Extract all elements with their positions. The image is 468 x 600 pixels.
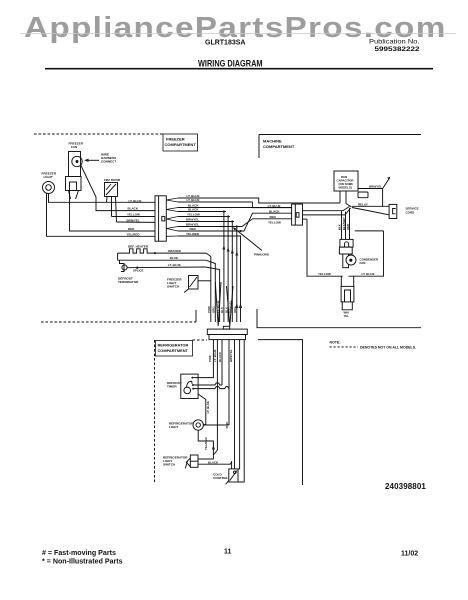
freezer fan motor circle	[72, 156, 82, 166]
wire row 211.5 drop	[178, 211, 226, 213]
svg-text:COMPARTMENT: COMPARTMENT	[165, 142, 197, 147]
freezer light bulb	[43, 182, 55, 194]
svg-text:CONTROL: CONTROL	[213, 476, 228, 480]
splice	[136, 267, 138, 269]
drop junctions	[223, 210, 242, 232]
svg-text:LIGHT: LIGHT	[44, 175, 53, 179]
below connector wires	[192, 340, 213, 378]
wire fan diagonal to BLACK row	[81, 165, 156, 211]
svg-text:LIGHT: LIGHT	[169, 425, 178, 429]
capacitor appendix	[358, 192, 368, 198]
svg-text:YELLOW: YELLOW	[268, 221, 281, 225]
refrigerator compartment label box	[156, 341, 193, 357]
svg-text:PINK: PINK	[225, 421, 229, 429]
refrigerator light label	[169, 422, 194, 430]
defrost terminator label	[118, 277, 139, 285]
freezer light switch label	[167, 278, 182, 289]
timer bottom wire to light	[198, 394, 206, 425]
connector right fanout pairs	[166, 198, 178, 236]
loop labels	[318, 272, 374, 276]
svg-text:BLACK: BLACK	[269, 209, 280, 213]
svg-text:LT. BLUE: LT. BLUE	[129, 199, 142, 203]
timer row B	[193, 383, 222, 385]
refrigerator compartment border left dashed	[154, 340, 156, 484]
light to pink vertical	[203, 424, 229, 426]
svg-text:CONNECT: CONNECT	[101, 160, 116, 164]
svg-text:MACHINE: MACHINE	[263, 139, 282, 144]
svg-text:ORANGE: ORANGE	[168, 249, 181, 253]
switch to cold control wire	[198, 461, 232, 464]
svg-text:# = Fast-moving Parts: # = Fast-moving Parts	[42, 549, 116, 557]
cold control symbol	[229, 469, 238, 482]
bundle rotated labels	[207, 300, 237, 313]
svg-text:PINK: PINK	[208, 354, 212, 362]
svg-text:RED: RED	[128, 227, 135, 231]
relay to service cord wire	[352, 205, 383, 207]
svg-text:FAN: FAN	[71, 145, 78, 149]
heater rows bend down	[206, 253, 211, 322]
refrigerator light switch label	[163, 456, 188, 467]
note text	[330, 341, 417, 350]
refrigerator compartment label	[158, 343, 189, 354]
left wire labels	[127, 199, 142, 237]
svg-text:SPLICE: SPLICE	[133, 268, 144, 272]
ground plug	[341, 286, 354, 302]
svg-text:BLACK: BLACK	[218, 351, 222, 362]
note dashed sample	[330, 346, 359, 348]
faint page top line	[20, 33, 456, 35]
svg-text:PINK: PINK	[207, 305, 211, 313]
svg-text:RED: RED	[270, 215, 277, 219]
svg-text:11/02: 11/02	[401, 551, 418, 558]
svg-text:BLACK: BLACK	[128, 207, 139, 211]
freezer compartment border top	[34, 133, 163, 135]
svg-text:11: 11	[224, 549, 232, 556]
wire row lt blue to machine connector	[178, 202, 292, 208]
svg-text:ORG: ORG	[233, 306, 237, 313]
wire row red diag	[178, 213, 292, 231]
freezer compartment border bottom	[41, 321, 196, 323]
cold control label	[213, 473, 228, 481]
svg-text:YELLOW: YELLOW	[318, 272, 331, 276]
freezer fan housing inner	[70, 182, 77, 191]
svg-text:YEL/RED: YEL/RED	[204, 437, 208, 450]
below connector rotated labels	[208, 349, 233, 362]
refrigerator light switch symbol	[190, 455, 198, 467]
freezer fan motor body	[69, 152, 81, 177]
refrigerator light bulb	[193, 420, 203, 430]
wire light to switch	[49, 194, 156, 203]
svg-text:BRN/YEL: BRN/YEL	[229, 349, 233, 362]
capacitor drop wires	[339, 191, 341, 203]
svg-text:240398801: 240398801	[385, 482, 426, 491]
wire switch BRN-YEL row	[117, 221, 156, 223]
svg-text:5995382222: 5995382222	[375, 46, 420, 53]
svg-text:FREEZER: FREEZER	[166, 137, 185, 142]
svg-text:CORD: CORD	[406, 211, 416, 215]
refrigerator harness connector	[207, 329, 247, 334]
light down wire	[198, 430, 213, 459]
svg-text:DENOTES NOT ON ALL MODELS.: DENOTES NOT ON ALL MODELS.	[360, 345, 416, 349]
svg-text:DEF. HEATER: DEF. HEATER	[128, 245, 149, 249]
freezer fan housing	[66, 177, 82, 191]
freezer light switch symbol	[189, 276, 199, 290]
condenser loop left	[307, 219, 343, 276]
wire harness arrow	[86, 159, 99, 161]
svg-text:LT. BLUE: LT. BLUE	[206, 401, 210, 414]
svg-text:COMPARTMENT: COMPARTMENT	[158, 348, 189, 353]
freezer compartment label box	[163, 134, 198, 151]
bundle long fan-ins	[215, 282, 221, 326]
timer row C	[193, 387, 229, 389]
wire row 221.5 drop	[178, 221, 234, 223]
svg-text:NOTE:: NOTE:	[330, 341, 341, 345]
freezer fan label	[69, 142, 84, 150]
condenser loop right	[349, 231, 384, 276]
svg-text:PINK/ORG: PINK/ORG	[254, 253, 270, 257]
freezer fan legs	[69, 191, 71, 200]
machine connector right rows	[303, 207, 350, 211]
bundle arrowheads	[222, 245, 242, 308]
wire blue row	[118, 259, 206, 261]
svg-text:SWITCH: SWITCH	[167, 285, 180, 289]
bundle drop wires	[223, 212, 225, 323]
condenser fan	[346, 255, 356, 265]
defrost timer box	[181, 374, 198, 398]
freezer light label	[42, 172, 57, 180]
title rule	[45, 68, 433, 70]
wire row black to machine connector	[178, 207, 292, 209]
right wire labels	[186, 194, 200, 236]
relay bundle down	[341, 211, 343, 240]
svg-text:WHT: WHT	[346, 223, 350, 230]
svg-text:GLRT183SA: GLRT183SA	[205, 40, 245, 47]
wire row yel-red down	[178, 236, 241, 322]
wire harness connect label	[101, 153, 116, 164]
svg-text:BLUE: BLUE	[170, 256, 178, 260]
svg-text:BRN/YEL: BRN/YEL	[127, 218, 140, 222]
wire lt blue row3	[127, 266, 205, 269]
machine compartment border left lower	[257, 309, 421, 328]
svg-text:YEL/RED: YEL/RED	[127, 232, 141, 236]
svg-text:BRN/YEL: BRN/YEL	[369, 185, 382, 189]
condenser fan bracket	[343, 254, 349, 268]
svg-text:YELLOW: YELLOW	[127, 213, 140, 217]
compressor down wires	[340, 276, 342, 286]
svg-text:MODELS): MODELS)	[339, 186, 352, 190]
svg-text:SWITCH: SWITCH	[163, 463, 176, 467]
svg-text:LT. BLUE: LT. BLUE	[168, 263, 181, 267]
freezer compartment label	[165, 137, 197, 148]
svg-text:Publication No.: Publication No.	[369, 39, 420, 46]
run capacitor box	[334, 171, 358, 191]
svg-text:* = Non-Illustrated Parts: * = Non-Illustrated Parts	[42, 558, 123, 566]
defrost timer label	[167, 381, 182, 389]
defrost terminator	[120, 260, 125, 271]
svg-text:FRZ DOOR: FRZ DOOR	[104, 178, 121, 182]
frz door switch pins	[106, 197, 109, 203]
wire light to YEL-RED row	[47, 193, 156, 236]
svg-text:COMPARTMENT: COMPARTMENT	[263, 144, 295, 149]
defrost heater element	[118, 249, 207, 253]
svg-text:LT. BLUE: LT. BLUE	[213, 349, 217, 362]
machine compartment border top	[259, 134, 421, 136]
svg-text:WIRING DIAGRAM: WIRING DIAGRAM	[198, 59, 263, 69]
refrigerator compartment border top dashed	[193, 339, 208, 341]
wire row 226.5 diag	[178, 219, 292, 227]
machine harness connector	[292, 204, 303, 225]
machine connector wire labels	[268, 204, 281, 225]
machine compartment border left upper	[258, 135, 260, 159]
wire fan to RED row	[70, 191, 156, 232]
refrigerator compartment border top-right	[258, 340, 303, 485]
freezer compartment corner tick	[195, 310, 197, 322]
svg-text:REFRIGERATOR: REFRIGERATOR	[158, 343, 189, 348]
wire switch YELLOW row	[112, 216, 156, 218]
svg-text:YEL: YEL	[344, 314, 350, 318]
compressor body	[339, 247, 352, 254]
svg-text:TERMINATOR: TERMINATOR	[118, 280, 139, 284]
machine compartment label	[263, 139, 295, 150]
svg-text:FAN: FAN	[360, 261, 366, 265]
site logo	[24, 12, 447, 45]
svg-text:LT. BLUE: LT. BLUE	[362, 272, 375, 276]
freezer harness connector	[155, 196, 166, 241]
svg-text:LT. BLUE: LT. BLUE	[268, 204, 281, 208]
frz door switch body	[105, 183, 118, 197]
svg-text:TIMER: TIMER	[167, 385, 177, 389]
wire row lt blue to capacitor	[178, 198, 340, 203]
heater left vertical	[117, 253, 119, 260]
compressor connector	[340, 239, 353, 247]
svg-text:BLACK: BLACK	[208, 460, 219, 464]
wire row 216.5 drop	[178, 216, 230, 218]
service cord plug	[389, 204, 397, 218]
